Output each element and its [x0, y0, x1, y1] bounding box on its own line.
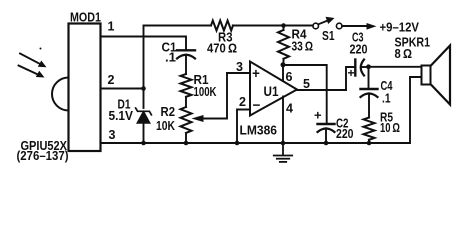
svg-text:.1: .1: [382, 92, 391, 106]
IR arrow 1: [20, 54, 47, 68]
speck: [40, 48, 42, 50]
svg-text:100K: 100K: [194, 85, 217, 99]
node C2 ground: [324, 141, 329, 146]
svg-text:+: +: [314, 108, 322, 123]
node D1 ground: [141, 141, 146, 146]
svg-text:5: 5: [303, 77, 310, 91]
wire pin2 to left rail: [101, 88, 144, 90]
svg-text:470 Ω: 470 Ω: [207, 42, 237, 56]
svg-text:2: 2: [239, 95, 246, 109]
svg-text:+9–12V: +9–12V: [380, 20, 420, 35]
svg-text:10K: 10K: [156, 119, 175, 133]
zener diode D1: [136, 108, 152, 123]
svg-text:5.1V: 5.1V: [109, 109, 134, 123]
svg-text:220: 220: [336, 127, 354, 141]
node pin4 ground: [281, 141, 286, 146]
pin 5 wire: [297, 89, 346, 91]
capacitor C3: [355, 60, 368, 76]
R2 wiper arrow: [192, 73, 228, 122]
node R2 ground: [184, 141, 189, 146]
svg-text:(276–137): (276–137): [17, 149, 69, 163]
wire D1 to ground rail: [143, 123, 145, 143]
wire top rail left corner to R3: [144, 26, 212, 89]
wire C3 node to speaker: [369, 66, 422, 68]
svg-text:3: 3: [236, 60, 243, 74]
svg-text:1: 1: [108, 20, 115, 34]
wire pin6 node to C2: [284, 65, 327, 123]
svg-text:10 Ω: 10 Ω: [380, 121, 400, 135]
svg-text:−: −: [253, 98, 261, 113]
wire R2 to ground rail: [185, 133, 187, 143]
op-amp U1 triangle: [250, 62, 297, 116]
resistor R3: [211, 21, 233, 31]
node C3 output junction: [366, 64, 371, 69]
svg-text:.1: .1: [165, 51, 176, 65]
resistor R4: [278, 26, 289, 66]
wire pin5 up to C3: [346, 67, 355, 90]
svg-text:S1: S1: [322, 29, 335, 43]
pin 4 wire: [282, 97, 284, 144]
svg-text:LM386: LM386: [240, 124, 278, 138]
pin 3 wire: [227, 72, 250, 74]
capacitor C4: [361, 89, 378, 118]
svg-text:220: 220: [350, 43, 368, 57]
IR arrow 2: [19, 66, 45, 78]
svg-text:+: +: [252, 66, 260, 81]
svg-text:+: +: [348, 66, 355, 80]
wire C3 node down to C4: [368, 67, 370, 88]
node pin2 ground: [235, 141, 240, 146]
svg-text:33 Ω: 33 Ω: [292, 40, 314, 54]
node R5 ground: [367, 141, 372, 146]
capacitor C1: [177, 50, 195, 74]
potentiometer R2: [181, 107, 192, 133]
svg-text:U1: U1: [264, 84, 279, 99]
node pin2/rail junction: [141, 86, 146, 91]
supply arrowhead: [367, 23, 377, 30]
resistor R5: [364, 118, 375, 140]
switch S1: [313, 17, 342, 29]
svg-text:R2: R2: [161, 105, 176, 119]
wire left rail to D1: [143, 89, 145, 109]
svg-text:6: 6: [286, 70, 293, 84]
svg-text:MOD1: MOD1: [70, 11, 101, 25]
capacitor C2: [318, 124, 335, 143]
svg-text:4: 4: [286, 102, 293, 116]
svg-text:3: 3: [109, 128, 116, 142]
wire R5 to ground rail: [368, 140, 370, 143]
wire pin1 to C1 corner: [101, 37, 187, 50]
speaker SPKR1: [422, 46, 451, 105]
node R4 bottom / pin6: [281, 62, 286, 67]
ground rail pin3 to speaker return: [101, 77, 422, 143]
svg-text:8 Ω: 8 Ω: [395, 47, 413, 61]
pin 6 stub: [282, 65, 284, 81]
photodetector dome: [52, 78, 68, 111]
ground symbol: [274, 143, 292, 162]
svg-text:2: 2: [108, 73, 115, 87]
wire R1 to R2: [185, 97, 187, 107]
module MOD1 box: [69, 24, 101, 152]
wire R3 to S1: [233, 25, 313, 27]
pin 2 wire to ground: [237, 110, 250, 144]
node R4 top junction: [281, 23, 286, 28]
resistor R1: [181, 74, 192, 97]
wire S1 to supply arrow: [342, 25, 367, 27]
